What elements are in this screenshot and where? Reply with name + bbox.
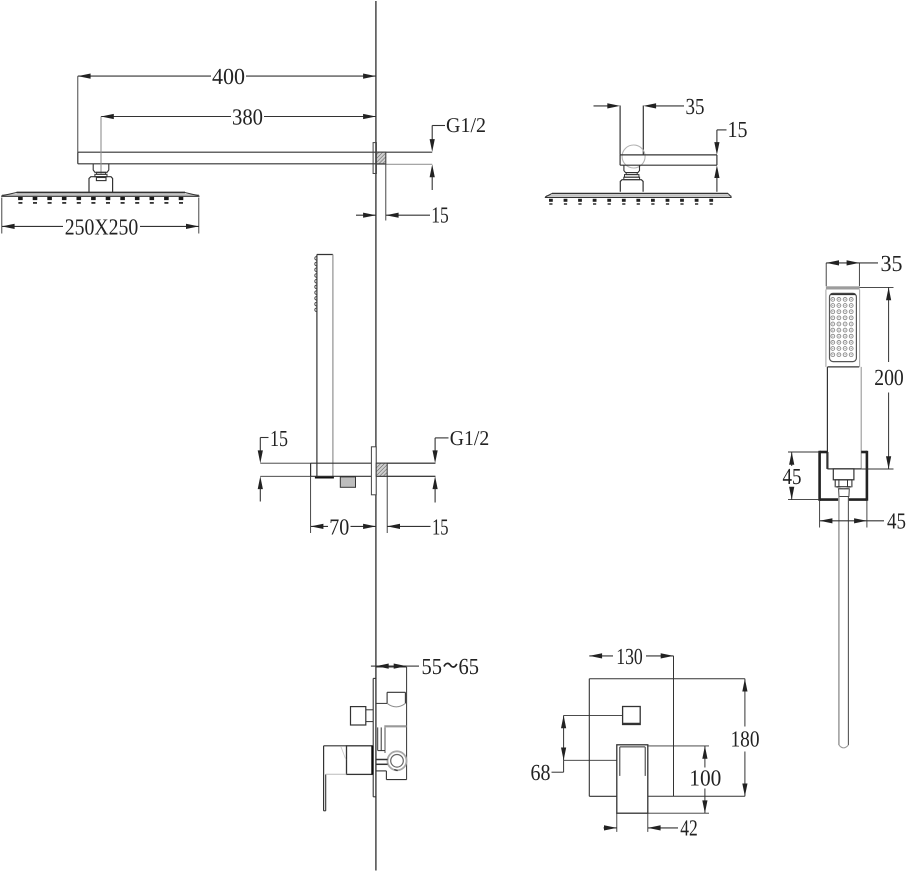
shower head nozzles (front) [18, 197, 183, 204]
svg-text:200: 200 [874, 365, 904, 390]
svg-text:55: 55 [422, 654, 443, 679]
holder hook block [340, 477, 355, 487]
arm escutcheon plate [373, 143, 376, 174]
mixer escutcheon (side) [373, 678, 376, 796]
dimension 15 (holder bar) [258, 426, 311, 502]
svg-text:45: 45 [887, 509, 906, 534]
svg-text:65: 65 [459, 654, 480, 679]
hand shower handle (side, in holder) [317, 255, 333, 477]
svg-text:35: 35 [881, 251, 903, 276]
svg-text:35: 35 [686, 94, 705, 119]
holder escutcheon [371, 447, 376, 495]
svg-text:400: 400 [212, 64, 245, 89]
hose connector stack [833, 469, 854, 497]
hand shower head cap [826, 286, 860, 289]
dimension 380 [101, 105, 376, 174]
dimension 45 horizontal (bracket) [820, 501, 906, 534]
mixer face plate 130x180 [589, 656, 745, 796]
label G1/2 (arm) [430, 113, 486, 190]
dimension 250X250 [2, 198, 199, 240]
dimension 130 [589, 644, 673, 669]
wall bracket (front) [820, 451, 867, 501]
shower head plate (side view) [545, 194, 732, 198]
shower hose [839, 497, 849, 748]
head connector block (side) [620, 177, 643, 192]
svg-text:70: 70 [329, 515, 349, 540]
mixer handle body (side) [347, 746, 374, 775]
arm wall flange (hatched) [376, 152, 386, 164]
ball connector (side) [624, 165, 640, 177]
svg-text:180: 180 [731, 727, 760, 752]
supply stubs [376, 760, 388, 765]
svg-text:15: 15 [432, 514, 449, 539]
hand shower handle (front) [827, 367, 861, 469]
in-wall arm pipe G1/2 [376, 152, 432, 164]
dimension 200 [860, 287, 904, 469]
svg-text:15: 15 [270, 426, 288, 451]
shower head plate 250x250 (front) [1, 193, 199, 197]
spray face plate [830, 293, 857, 361]
svg-text:42: 42 [680, 816, 698, 841]
dimension 42 [604, 816, 698, 841]
mixer lever (side) [324, 746, 347, 811]
mixer top outlet port [376, 692, 406, 707]
hand shower head body [826, 290, 860, 367]
svg-text:G1/2: G1/2 [446, 113, 486, 137]
spray nozzle dots [831, 298, 853, 357]
wall line [375, 1, 377, 871]
mixer handle (front) [617, 745, 648, 832]
svg-text:15: 15 [431, 203, 449, 228]
ball joint connector (front) [93, 164, 109, 177]
dimension 70 [311, 476, 376, 539]
svg-text:15: 15 [728, 117, 748, 142]
svg-text:380: 380 [232, 105, 263, 130]
svg-text:G1/2: G1/2 [450, 426, 490, 450]
shower arm (front view) [78, 152, 376, 164]
diverter button (front) [623, 707, 641, 725]
mixer in-wall body [376, 667, 407, 780]
dimension 68 [531, 715, 623, 785]
dimension 15 (arm flange) [356, 164, 449, 227]
svg-text:130: 130 [616, 644, 643, 669]
holder wall flange (hatched) [376, 463, 387, 476]
mixer internal channels [378, 726, 407, 753]
dimension 55~65 [371, 654, 479, 679]
shower head connector block (front) [89, 177, 113, 193]
dimension 35 (hand shower) [826, 251, 902, 286]
nozzles (side view) [549, 199, 713, 205]
svg-text:100: 100 [689, 766, 721, 791]
hand shower spray face serration [315, 256, 317, 311]
holder bar [311, 463, 436, 476]
svg-text:45: 45 [783, 464, 802, 489]
diverter knob (side) [351, 707, 374, 725]
ball joint circle (side) [622, 145, 645, 168]
dimension 35 (arm width) [594, 94, 705, 119]
label G1/2 (holder) [387, 426, 489, 503]
dimension 100 [648, 746, 722, 813]
shower arm vertical bar (side view) [620, 106, 643, 155]
shower arm horizontal (side view) [620, 155, 717, 165]
dimension 15 (arm thickness, side) [714, 117, 747, 192]
dimension 400 [78, 64, 376, 152]
dimension 45 vertical (bracket) [783, 452, 820, 500]
dimension 180 [731, 679, 760, 797]
dimension 15 (holder flange) [387, 476, 448, 539]
svg-text:250X250: 250X250 [65, 214, 139, 239]
mixer cartridge circle [388, 751, 407, 770]
hand shower inlet end [315, 476, 334, 478]
svg-text:68: 68 [531, 760, 551, 785]
